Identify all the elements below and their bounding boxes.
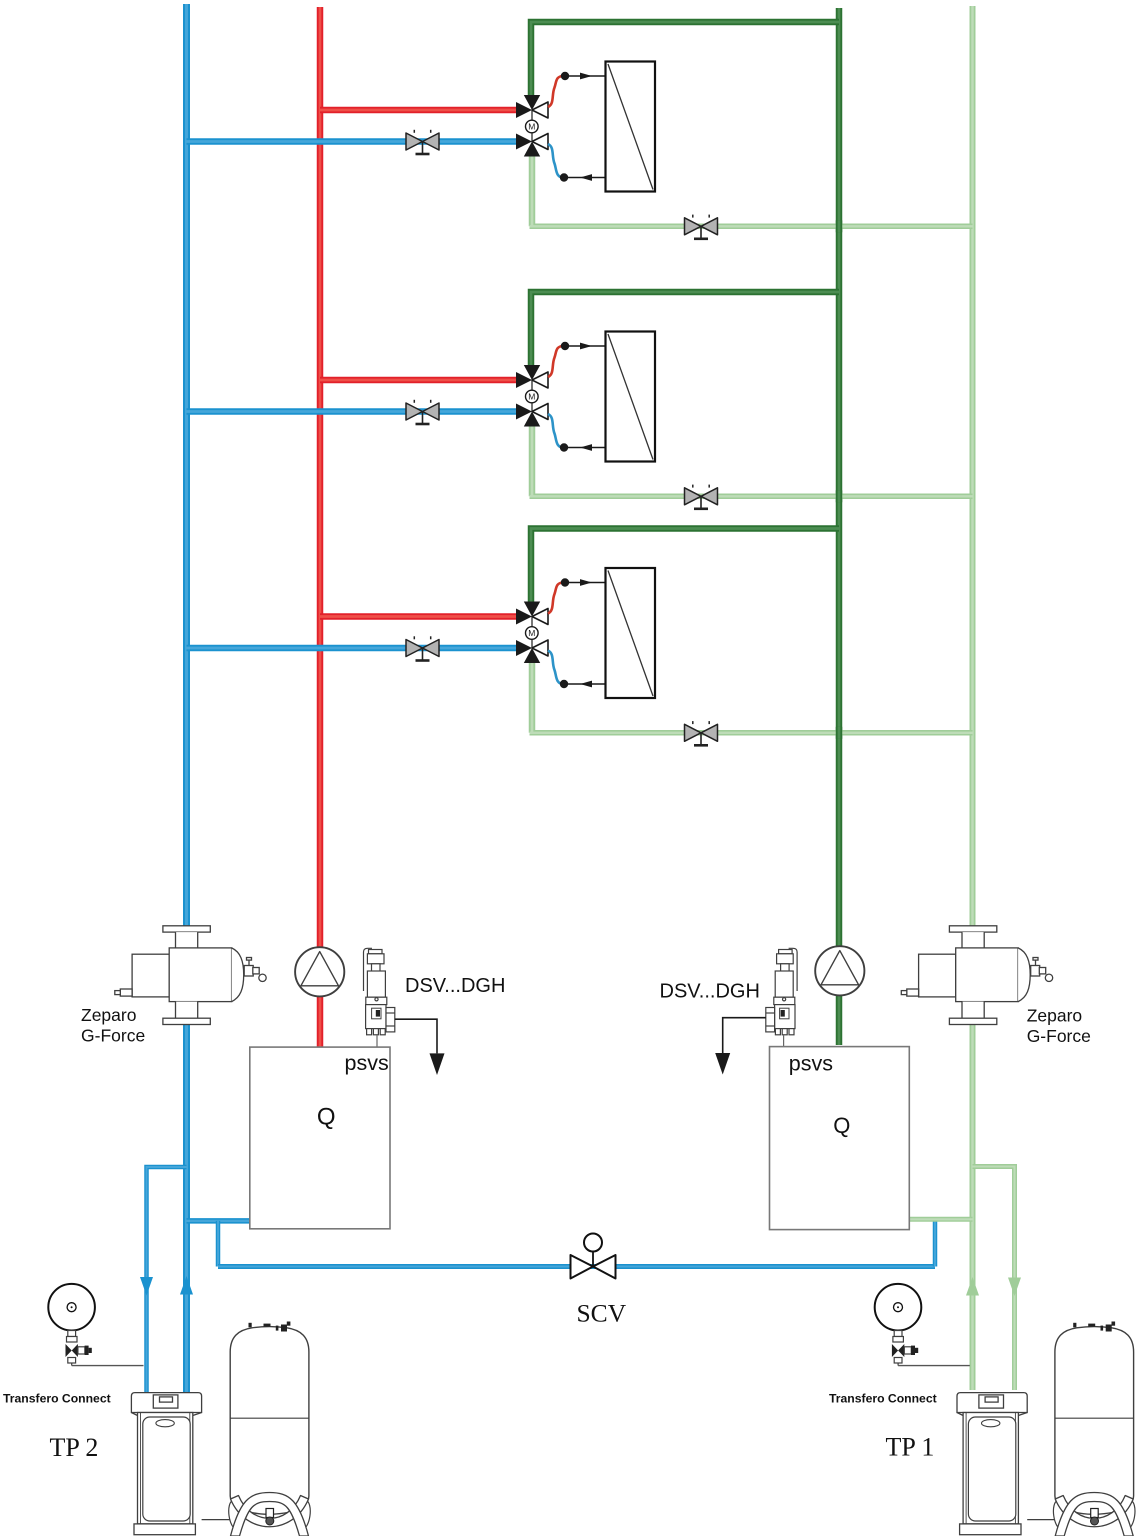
circuit 2 flow branch (red) xyxy=(320,377,517,384)
riser crossing xyxy=(836,220,843,232)
outlet line with arrow circuit 1 xyxy=(568,174,606,181)
svg-text:TP 2: TP 2 xyxy=(50,1433,99,1462)
Transfero TP 1 unit xyxy=(957,1393,1027,1535)
circuit 3 flow branch (red) xyxy=(320,613,517,620)
svg-text:Q: Q xyxy=(833,1113,850,1138)
blue flow arrow up xyxy=(180,1276,193,1295)
3-way motor valve circuit 3 bottom xyxy=(516,640,548,663)
shut-off valve on circuit 3 return xyxy=(685,721,718,745)
sensor node top circuit 3 xyxy=(561,578,569,586)
outlet line with arrow circuit 2 xyxy=(568,444,606,451)
pump left xyxy=(295,947,344,996)
svg-text:Transfero Connect: Transfero Connect xyxy=(829,1391,937,1405)
circuit 1 return pipe (light green) xyxy=(530,154,973,226)
connector TP1 to vessel xyxy=(1027,1519,1056,1521)
light green secondary return riser xyxy=(970,6,976,1390)
green flow arrow up xyxy=(966,1277,979,1296)
pressure gauge Transfero right xyxy=(875,1284,922,1366)
valve stem circuit 3 xyxy=(531,617,533,649)
svg-text:DSV...DGH: DSV...DGH xyxy=(660,981,760,1003)
valve motor M circuit 1 xyxy=(526,120,539,133)
connector TP2 to vessel xyxy=(202,1519,231,1521)
sensor capillary red circuit 1 xyxy=(548,76,564,107)
blue branch to TP2 (down pipe) xyxy=(147,1167,187,1392)
svg-text:M: M xyxy=(528,628,535,638)
shut-off valve on circuit 1 return xyxy=(685,215,718,239)
pressure maintenance vessel Q right xyxy=(770,1047,910,1230)
heat exchanger circuit 2 xyxy=(606,332,656,462)
pressure maintenance vessel Q left xyxy=(250,1047,390,1229)
3-way motor valve circuit 2 top xyxy=(516,365,548,388)
inlet line with arrow circuit 2 xyxy=(569,343,606,350)
psvs sensing line left xyxy=(376,1035,378,1049)
blue drop to SCV line left xyxy=(216,1221,221,1267)
red flow riser xyxy=(317,7,324,1047)
svg-text:ZeparoG-Force: ZeparoG-Force xyxy=(81,1005,145,1045)
safety valve DSV left xyxy=(364,948,395,1034)
heat exchanger circuit 3 xyxy=(606,568,656,698)
outlet line with arrow circuit 3 xyxy=(568,681,606,688)
valve stem circuit 2 xyxy=(531,380,533,412)
svg-text:DSV...DGH: DSV...DGH xyxy=(405,975,505,997)
3-way motor valve circuit 2 bottom xyxy=(516,404,548,427)
inlet line with arrow circuit 3 xyxy=(569,579,606,586)
shut-off valve on circuit 3 blue branch xyxy=(406,636,439,660)
SCV changeover valve xyxy=(571,1234,616,1279)
blue drop to SCV line right xyxy=(933,1222,938,1267)
psvs sensing line right xyxy=(783,1035,785,1049)
svg-text:M: M xyxy=(528,122,535,132)
SCV transfer line xyxy=(218,1264,935,1269)
svg-text:TP 1: TP 1 xyxy=(886,1433,935,1462)
svg-text:psvs: psvs xyxy=(789,1051,833,1075)
sensor capillary red circuit 2 xyxy=(548,346,564,377)
Zeparo G-Force separator left xyxy=(115,926,266,1025)
Transfero TP 2 unit xyxy=(131,1393,201,1535)
valve stem circuit 1 xyxy=(531,110,533,142)
sensor node bottom circuit 3 xyxy=(560,680,568,688)
heat exchanger circuit 1 xyxy=(606,62,656,192)
blue return riser xyxy=(183,4,190,1392)
svg-text:ZeparoG-Force: ZeparoG-Force xyxy=(1027,1006,1091,1046)
gauge connection line left xyxy=(72,1365,144,1367)
DSV discharge arrow left xyxy=(430,1053,445,1075)
valve motor M circuit 2 xyxy=(526,390,539,403)
circuit 1 return branch (blue) xyxy=(187,138,518,145)
inlet line with arrow circuit 1 xyxy=(569,73,606,80)
expansion vessel right xyxy=(1052,1322,1137,1536)
sensor capillary red circuit 3 xyxy=(548,583,564,614)
light green connector vessel Q to riser xyxy=(909,1217,972,1222)
sensor capillary blue circuit 3 xyxy=(548,651,564,685)
circuit 2 return branch (blue) xyxy=(187,408,518,415)
sensor node bottom circuit 2 xyxy=(560,443,568,451)
shut-off valve on circuit 1 blue branch xyxy=(406,130,439,154)
DSV discharge arrow right xyxy=(715,1053,730,1075)
3-way motor valve circuit 1 bottom xyxy=(516,134,548,157)
valve motor M circuit 3 xyxy=(526,627,539,640)
pump right xyxy=(815,946,864,995)
shut-off valve on circuit 2 blue branch xyxy=(406,400,439,424)
circuit 1 flow branch (red) xyxy=(320,107,517,114)
green flow arrow down xyxy=(1008,1278,1021,1297)
circuit 2 supply pipe (dark green) xyxy=(531,292,839,366)
svg-text:SCV: SCV xyxy=(577,1299,627,1328)
svg-text:psvs: psvs xyxy=(345,1051,389,1075)
dark green secondary flow riser xyxy=(836,8,843,1045)
sensor node top circuit 2 xyxy=(561,342,569,350)
light green branch to TP1 (down pipe) xyxy=(973,1167,1015,1391)
3-way motor valve circuit 3 top xyxy=(516,602,548,625)
DSV discharge line left xyxy=(395,1019,437,1053)
safety valve DSV right xyxy=(766,948,797,1034)
riser crossing xyxy=(836,727,843,739)
shut-off valve on circuit 2 return xyxy=(685,485,718,509)
gauge connection line right xyxy=(898,1365,970,1367)
riser crossing xyxy=(836,490,843,502)
svg-text:M: M xyxy=(528,392,535,402)
DSV discharge line right xyxy=(723,1018,766,1053)
sensor capillary blue circuit 1 xyxy=(548,144,564,178)
circuit 3 supply pipe (dark green) xyxy=(531,529,839,603)
Zeparo G-Force separator right xyxy=(901,926,1052,1025)
circuit 3 return pipe (light green) xyxy=(530,661,973,733)
sensor node bottom circuit 1 xyxy=(560,173,568,181)
blue connector riser to vessel Q xyxy=(187,1218,250,1224)
circuit 2 return pipe (light green) xyxy=(530,424,973,496)
sensor capillary blue circuit 2 xyxy=(548,414,564,448)
circuit 1 supply pipe (dark green) xyxy=(531,22,839,96)
svg-text:Q: Q xyxy=(317,1104,336,1131)
circuit 3 return branch (blue) xyxy=(187,645,518,652)
svg-text:Transfero Connect: Transfero Connect xyxy=(3,1392,111,1406)
sensor node top circuit 1 xyxy=(561,72,569,80)
expansion vessel left xyxy=(227,1322,312,1536)
3-way motor valve circuit 1 top xyxy=(516,95,548,118)
pressure gauge Transfero left xyxy=(48,1284,95,1366)
blue flow arrow down xyxy=(140,1277,153,1296)
